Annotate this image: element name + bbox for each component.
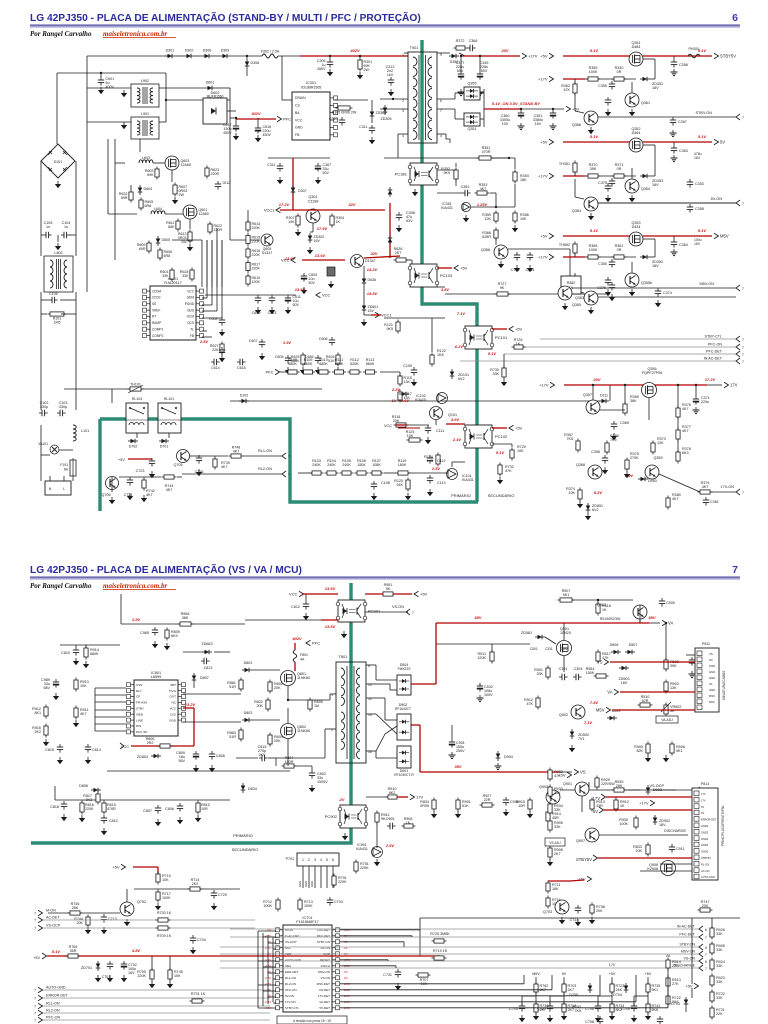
- wire: [628, 789, 640, 791]
- resistor R613: [188, 232, 192, 241]
- net +5V q703: [587, 876, 592, 882]
- svg-text:220R: 220R: [214, 228, 223, 232]
- ground: [359, 72, 361, 75]
- svg-text:250V: 250V: [456, 749, 465, 753]
- resistor R517: [596, 652, 600, 661]
- svg-text:0R05: 0R05: [420, 804, 429, 808]
- resistor R782: [534, 984, 538, 992]
- svg-text:5.1V: 5.1V: [590, 228, 599, 233]
- net PFC: [275, 369, 280, 375]
- svg-text:C374: C374: [663, 291, 672, 295]
- wire bridge left down: [40, 161, 42, 256]
- svg-text:DRAIN: DRAIN: [295, 96, 306, 100]
- net DISCHARGE: [220, 967, 700, 969]
- svg-text:18V: 18V: [652, 264, 659, 268]
- svg-text:4: 4: [320, 858, 322, 862]
- wire: [165, 73, 167, 87]
- diode D703: [684, 1000, 689, 1005]
- capacitor C705: [519, 1005, 525, 1007]
- resistor R376: [676, 408, 680, 417]
- ground: [213, 903, 215, 906]
- wire: [650, 175, 655, 177]
- wire relay top: [64, 388, 322, 390]
- capacitor C354: [527, 254, 533, 256]
- resistor R915: [528, 800, 532, 809]
- svg-text:M-ON: M-ON: [46, 909, 56, 913]
- svg-text:+5V: +5V: [420, 592, 428, 597]
- svg-text:8K1: 8K1: [34, 711, 41, 715]
- resistor R711: [546, 883, 550, 891]
- wire: [446, 423, 465, 425]
- wire ic801 left: [95, 730, 126, 732]
- svg-text:C112: C112: [437, 459, 446, 463]
- ground: [329, 69, 331, 72]
- wire: [363, 266, 365, 276]
- svg-text:6: 6: [705, 960, 707, 964]
- net M5V to P811: [606, 707, 611, 713]
- ground: [103, 927, 105, 930]
- resistor R380: [666, 498, 670, 507]
- ground: [297, 229, 299, 232]
- svg-text:47K: 47K: [602, 656, 609, 660]
- resistor R805: [308, 700, 312, 709]
- wire ic701 det fanout: [340, 1001, 636, 1003]
- wire: [177, 476, 182, 478]
- svg-text:PFC-ON: PFC-ON: [708, 343, 722, 347]
- wire pin9: [437, 52, 450, 54]
- mosfet Q601: [183, 205, 197, 219]
- ground: [433, 811, 435, 814]
- resistor R916: [44, 726, 48, 735]
- wire to bridge: [56, 73, 58, 144]
- resistor R751: [354, 862, 358, 871]
- ground: [397, 983, 399, 986]
- wire: [375, 665, 377, 680]
- svg-text:+5V: +5V: [112, 865, 120, 870]
- wire: [72, 478, 74, 481]
- diode D953: [641, 477, 646, 482]
- svg-text:C364: C364: [679, 243, 688, 247]
- ground: [479, 89, 481, 92]
- wire 5V rail: [563, 141, 630, 143]
- svg-text:SDA: SDA: [285, 964, 291, 968]
- wire pin1: [404, 52, 408, 54]
- svg-text:Q901: Q901: [563, 782, 572, 786]
- svg-text:maiseletronica.com.br: maiseletronica.com.br: [103, 30, 167, 38]
- svg-text:C714: C714: [570, 918, 579, 922]
- wire 20V: [460, 55, 520, 57]
- wire: [115, 162, 125, 164]
- wire: [685, 1007, 687, 1012]
- wire: [483, 89, 485, 127]
- svg-text:C363: C363: [679, 149, 688, 153]
- resistor R516: [596, 604, 600, 613]
- svg-text:D701: D701: [160, 445, 169, 449]
- ground: [344, 833, 346, 836]
- diode D305: [383, 108, 388, 113]
- wire: [75, 645, 77, 647]
- svg-text:6.2V: 6.2V: [594, 490, 603, 495]
- svg-text:6: 6: [732, 12, 738, 24]
- wire 402V rail: [300, 55, 408, 57]
- capacitor C605: [285, 357, 291, 359]
- wire: [480, 118, 484, 120]
- svg-text:402V: 402V: [250, 111, 261, 116]
- wire vertical feed: [86, 56, 88, 292]
- svg-text:GND2: GND2: [701, 830, 709, 834]
- svg-text:7: 7: [705, 953, 707, 957]
- net +5V: [454, 265, 459, 271]
- ground: [647, 755, 649, 758]
- trimmer VR502: [664, 705, 668, 714]
- junction: [677, 384, 679, 386]
- junction: [100, 72, 102, 74]
- svg-text:450V: 450V: [263, 133, 272, 137]
- svg-text:D464: D464: [632, 131, 641, 135]
- wire: [153, 162, 165, 164]
- svg-text:7: 7: [412, 611, 414, 615]
- resistor R739: [213, 459, 217, 467]
- svg-text:2V: 2V: [339, 797, 345, 802]
- resistor R913: [74, 680, 78, 689]
- wire ic601 pin: [201, 291, 203, 293]
- svg-text:PGND: PGND: [185, 302, 195, 306]
- wire: [294, 643, 296, 650]
- wire crossover: [376, 714, 397, 751]
- bridge rectifier D101: [41, 144, 75, 178]
- svg-text:C965: C965: [140, 631, 149, 635]
- capacitor C350: [609, 261, 615, 263]
- ground: [373, 493, 375, 496]
- net 17V: [724, 382, 729, 388]
- svg-text:50V: 50V: [293, 303, 300, 307]
- svg-text:L603: L603: [142, 156, 150, 160]
- wire vs-ocp: [560, 789, 700, 791]
- svg-text:470R: 470R: [107, 807, 116, 811]
- svg-text:5K6: 5K6: [652, 1008, 659, 1012]
- svg-text:33K: 33K: [554, 808, 561, 812]
- ground: [695, 407, 697, 410]
- svg-text:11NK60: 11NK60: [297, 676, 310, 680]
- svg-text:1K: 1K: [602, 608, 607, 612]
- ground: [413, 379, 415, 382]
- transistor Q703: [555, 900, 569, 914]
- svg-text:4.7V: 4.7V: [265, 982, 272, 986]
- resistor R505: [646, 744, 650, 753]
- wire vcc red: [398, 427, 420, 429]
- svg-text:18V: 18V: [652, 183, 659, 187]
- svg-text:470R: 470R: [482, 150, 491, 154]
- svg-text:C375: C375: [598, 181, 607, 185]
- capacitor C612: [215, 183, 221, 185]
- svg-text:9: 9: [440, 53, 442, 57]
- svg-text:ISEN: ISEN: [136, 712, 143, 716]
- wire ic701 fanout: [340, 941, 404, 943]
- capacitor C304: [575, 674, 577, 680]
- rectifier D504: [397, 675, 411, 695]
- svg-text:VA-ADJ: VA-ADJ: [661, 718, 673, 722]
- wire: [659, 474, 700, 492]
- wire ic701 fanin: [268, 996, 276, 998]
- wire: [387, 960, 389, 961]
- svg-text:C368: C368: [469, 39, 478, 43]
- wire vcc1 red: [292, 158, 294, 210]
- wire: [227, 110, 236, 112]
- svg-text:ZD701: ZD701: [81, 966, 92, 970]
- wire pfc left bus: [114, 139, 116, 260]
- resistor R732: [498, 465, 502, 474]
- svg-text:14.8V: 14.8V: [367, 291, 378, 296]
- svg-text:1500V: 1500V: [317, 780, 328, 784]
- svg-text:VCC1: VCC1: [264, 208, 275, 213]
- svg-text:3: 3: [314, 858, 316, 862]
- wire ic601 pin: [202, 304, 212, 306]
- svg-text:+5V: +5V: [540, 140, 548, 145]
- transistor Q358: [494, 245, 508, 259]
- svg-text:+5V: +5V: [515, 426, 523, 431]
- svg-text:Por Rangel Carvalho: Por Rangel Carvalho: [30, 30, 92, 38]
- svg-text:C806: C806: [165, 807, 174, 811]
- svg-text:220K: 220K: [360, 866, 369, 870]
- svg-text:220u: 220u: [701, 400, 709, 404]
- svg-text:KIA431: KIA431: [415, 398, 427, 402]
- svg-text:50V: 50V: [481, 69, 488, 73]
- net +5V: [549, 233, 554, 239]
- svg-text:100K: 100K: [589, 70, 598, 74]
- wire: [460, 56, 462, 71]
- svg-text:120K: 120K: [477, 656, 486, 660]
- diode D102: [242, 399, 247, 404]
- svg-text:VCC: VCC: [295, 118, 303, 122]
- svg-text:240K: 240K: [312, 463, 321, 467]
- wire: [588, 782, 590, 790]
- resistor R718: [562, 1004, 566, 1012]
- resistor R619: [246, 276, 250, 284]
- svg-text:6: 6: [440, 99, 442, 103]
- svg-text:2.5V: 2.5V: [385, 843, 395, 848]
- transistor Q705: [177, 450, 190, 463]
- wire: [235, 118, 237, 123]
- wire: [411, 260, 413, 266]
- wire: [206, 240, 208, 298]
- svg-text:6V2: 6V2: [458, 377, 465, 381]
- wire: [599, 975, 601, 996]
- wire: [673, 142, 675, 145]
- svg-text:4.7V: 4.7V: [265, 964, 272, 968]
- capacitor C376: [609, 284, 615, 286]
- thermistor mark: [128, 385, 143, 393]
- svg-text:5.1V_ON 3.5V_STAND BY: 5.1V_ON 3.5V_STAND BY: [492, 101, 540, 106]
- filter transformer L901: [131, 117, 159, 139]
- svg-text:OUT: OUT: [169, 695, 176, 699]
- svg-text:9K1: 9K1: [676, 749, 683, 753]
- connector P813: [692, 788, 718, 880]
- ground: [287, 367, 289, 370]
- svg-text:GND2: GND2: [701, 837, 709, 841]
- capacitor C607: [259, 341, 265, 343]
- wire gate drive bus: [216, 240, 218, 287]
- resistor R307: [296, 216, 300, 225]
- transistor Q706: [106, 477, 119, 490]
- wire: [631, 168, 633, 179]
- ground: [520, 123, 522, 126]
- svg-text:7: 7: [34, 1012, 36, 1016]
- svg-text:ERROR-DET: ERROR-DET: [701, 818, 717, 822]
- zener ZD351: [643, 77, 648, 82]
- ground: [198, 469, 200, 472]
- resistor R930: [634, 818, 638, 827]
- capacitor C614: [213, 359, 215, 365]
- wire: [575, 197, 584, 199]
- fuse F302: [262, 54, 278, 58]
- wire: [535, 977, 537, 984]
- wire ic701 fanout: [340, 929, 420, 931]
- wire: [581, 796, 583, 812]
- svg-text:17V: 17V: [701, 798, 706, 802]
- svg-text:D605: D605: [162, 238, 171, 242]
- ground: [303, 287, 305, 290]
- wire: [166, 87, 205, 89]
- svg-text:10K: 10K: [174, 974, 181, 978]
- svg-text:+17V: +17V: [539, 383, 549, 388]
- svg-text:Oi12: Oi12: [223, 181, 231, 185]
- svg-text:220K: 220K: [252, 226, 261, 230]
- svg-text:PFC: PFC: [283, 117, 291, 122]
- wire VS: [610, 661, 695, 663]
- ground: [75, 658, 77, 661]
- zener ZD503: [622, 666, 627, 671]
- svg-text:GND2: GND2: [701, 850, 709, 854]
- wire on-line: [598, 296, 736, 298]
- wire: [408, 472, 448, 474]
- svg-text:F302 / 2.5A: F302 / 2.5A: [261, 50, 280, 54]
- ground: [109, 975, 111, 978]
- wire: [660, 863, 692, 865]
- resistor R728: [514, 345, 523, 349]
- wire M5V: [612, 709, 695, 711]
- resistor R507: [560, 598, 572, 602]
- svg-text:TL: TL: [190, 327, 194, 331]
- svg-text:AUTO-GND: AUTO-GND: [285, 958, 302, 962]
- wire 22V: [330, 209, 385, 211]
- ground: [57, 181, 59, 184]
- svg-text:K2508: K2508: [647, 867, 658, 871]
- svg-text:220K: 220K: [338, 880, 347, 884]
- resistor R927: [482, 803, 492, 807]
- ground: [376, 859, 378, 862]
- svg-text:2K2: 2K2: [34, 730, 41, 734]
- svg-text:7: 7: [742, 353, 744, 357]
- svg-text:7: 7: [732, 564, 738, 576]
- wire: [570, 880, 584, 881]
- svg-text:Q703: Q703: [543, 910, 552, 914]
- svg-text:VS: VS: [580, 770, 586, 775]
- wire EMI down-right: [75, 292, 77, 410]
- resistor R305: [338, 106, 350, 110]
- svg-text:C113: C113: [437, 481, 446, 485]
- ground: [529, 265, 531, 268]
- wire: [611, 977, 613, 984]
- resistor R377: [676, 430, 680, 439]
- svg-text:+17V: +17V: [528, 54, 538, 59]
- wire: [551, 975, 553, 990]
- optocoupler PC101: [465, 326, 492, 349]
- ground: [657, 300, 659, 303]
- capacitor C608: [219, 319, 225, 321]
- wire: [574, 273, 576, 291]
- svg-text:1K: 1K: [336, 220, 341, 224]
- wire ic701 fanin: [258, 984, 276, 986]
- svg-text:120K: 120K: [252, 280, 261, 284]
- svg-text:1M5: 1M5: [54, 320, 61, 324]
- wire: [455, 179, 457, 186]
- svg-text:D111: D111: [600, 394, 608, 398]
- resistor R881: [239, 680, 243, 689]
- svg-text:0R: 0R: [617, 248, 622, 252]
- svg-text:6: 6: [332, 858, 334, 862]
- wire ic801 left: [95, 716, 126, 718]
- svg-text:240K: 240K: [327, 463, 336, 467]
- shunt regulator IC101: [448, 470, 456, 478]
- note box: [277, 1016, 347, 1024]
- svg-text:4K7: 4K7: [221, 465, 228, 469]
- resistor R725: [434, 939, 444, 943]
- ground: [590, 213, 592, 216]
- svg-text:9K9: 9K9: [443, 171, 450, 175]
- wire: [216, 240, 218, 311]
- title rule: [30, 576, 740, 578]
- svg-text:5K1: 5K1: [652, 988, 659, 992]
- resistor R502: [664, 660, 668, 669]
- wire: [495, 193, 497, 207]
- net +17V: [549, 76, 554, 82]
- net M5V: [714, 233, 719, 239]
- svg-text:13.6V: 13.6V: [325, 624, 336, 629]
- svg-text:Q351: Q351: [467, 127, 476, 131]
- junction: [624, 384, 626, 386]
- mosfet Q501: [557, 641, 572, 656]
- resistor R735: [646, 984, 650, 992]
- net +5V: [549, 139, 554, 145]
- svg-text:+5V: +5V: [118, 458, 125, 462]
- svg-text:PRINC/PLACAFRENTE/PNL: PRINC/PLACAFRENTE/PNL: [721, 805, 725, 846]
- svg-text:7: 7: [34, 997, 36, 1001]
- wire: [634, 995, 648, 997]
- wire ic701 fanin: [263, 990, 276, 992]
- net +5V: [509, 326, 514, 332]
- ground: [673, 155, 675, 158]
- diode D508: [610, 716, 615, 721]
- resistor bias1: [588, 77, 598, 81]
- svg-text:C331: C331: [545, 647, 553, 651]
- svg-text:16V: 16V: [694, 156, 701, 160]
- svg-text:STBY5V: STBY5V: [701, 856, 711, 860]
- svg-text:69R: 69R: [121, 196, 128, 200]
- svg-text:16V: 16V: [314, 239, 321, 243]
- svg-text:1V: 1V: [392, 398, 397, 403]
- junction: [552, 108, 554, 110]
- wire: [609, 385, 611, 401]
- net VA to P811: [614, 689, 619, 695]
- junction: [597, 599, 599, 601]
- svg-text:D1347: D1347: [262, 251, 273, 255]
- zener ZD353: [643, 174, 648, 179]
- wire ic601 pin: [202, 297, 207, 299]
- optocoupler PC381: [410, 163, 437, 185]
- svg-text:D101: D101: [54, 160, 63, 164]
- wire p701 pin: [302, 866, 304, 888]
- resistor R709: [158, 926, 168, 930]
